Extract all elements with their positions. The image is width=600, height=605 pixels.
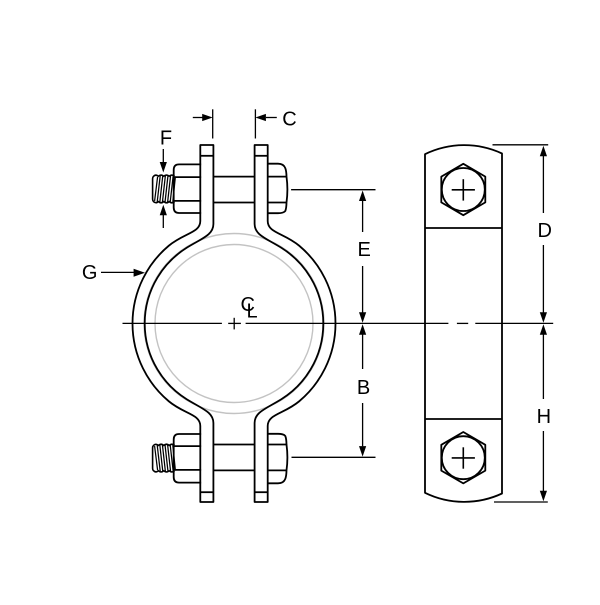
- svg-text:L: L: [247, 301, 258, 323]
- svg-text:D: D: [537, 220, 551, 242]
- svg-text:H: H: [537, 406, 551, 428]
- svg-text:B: B: [357, 377, 370, 399]
- svg-text:G: G: [82, 262, 98, 284]
- svg-text:F: F: [160, 128, 172, 150]
- svg-text:E: E: [358, 239, 371, 261]
- svg-text:C: C: [282, 108, 296, 130]
